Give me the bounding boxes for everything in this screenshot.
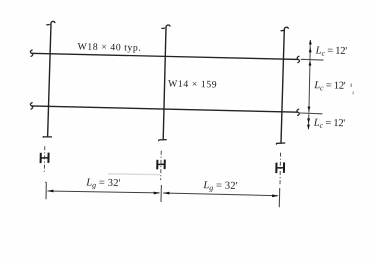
beam level 2: [31, 106, 298, 112]
column 1 base mark: [43, 136, 52, 139]
arrowhead left of bay 1: [47, 190, 53, 193]
dimension line Lc lower (continues down): [308, 114, 310, 129]
svg-text:Lg = 32': Lg = 32': [85, 177, 120, 190]
extension line middle (Lg datum): [160, 185, 162, 202]
beam level 1 right break squiggle: [297, 56, 299, 63]
column 1 top break hook: [46, 21, 55, 24]
svg-text:Lg = 32': Lg = 32': [202, 180, 237, 193]
section 3 centerline: [279, 153, 282, 186]
extension line level 2 right: [300, 112, 323, 115]
dimension line Lg bay 2: [163, 193, 278, 196]
svg-text:Lc = 12': Lc = 12': [313, 118, 346, 131]
column 3 top break hook: [281, 27, 289, 31]
svg-text:W14 × 159: W14 × 159: [168, 79, 217, 91]
arrowhead left of bay 2: [163, 192, 169, 195]
dimension line Lc middle story: [309, 60, 310, 112]
column 2 (middle): [163, 27, 166, 139]
arrowhead right of bay 2: [272, 194, 278, 197]
column 2 top break hook: [161, 25, 170, 28]
arrowhead up at level1: [309, 61, 312, 66]
beam W18x40 level 1: [31, 53, 298, 59]
arrowhead right of bay 1: [154, 192, 160, 195]
extension line right (Lg datum): [278, 188, 280, 207]
extension line left (Lg datum): [45, 182, 46, 199]
column 3 (right): [281, 30, 284, 143]
dimension line Lg bay 1: [48, 191, 160, 193]
column section symbol 3 (plan H): [276, 162, 284, 173]
arrowhead down bottom: [307, 125, 310, 130]
svg-text:Lc = 12': Lc = 12': [313, 80, 346, 93]
arrowhead up top: [309, 40, 312, 45]
extension line level 1 right: [301, 58, 324, 61]
column section symbol 2 (plan H): [157, 160, 165, 170]
column 2 base mark: [159, 140, 167, 141]
faint scan smudge above Lg bay 1: [108, 173, 160, 176]
column section symbol 1 (plan H): [41, 153, 49, 164]
beam level 2 left break squiggle: [30, 102, 32, 109]
beam level 1 left break squiggle: [30, 50, 32, 57]
faint scan speckles: [351, 84, 354, 95]
column 3 base mark: [276, 143, 285, 144]
arrowhead down at level2: [308, 107, 311, 112]
dimension line Lc upper (continues up): [309, 40, 311, 60]
svg-text:W18 × 40 typ.: W18 × 40 typ.: [77, 41, 141, 53]
column 1 (left): [48, 24, 51, 137]
svg-text:Lc = 12': Lc = 12': [315, 45, 348, 58]
section 2 centerline: [160, 151, 163, 180]
arrowhead up second: [309, 47, 312, 52]
arrowhead down first: [307, 118, 310, 123]
beam level 2 right break squiggle: [297, 109, 299, 116]
section 1 centerline: [43, 146, 46, 172]
